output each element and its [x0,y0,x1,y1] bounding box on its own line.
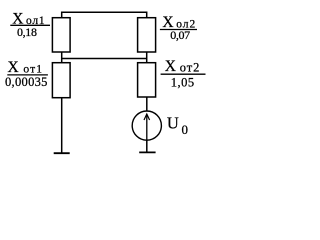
resistor Xол2 box [138,18,156,52]
svg-text:0,07: 0,07 [170,28,190,42]
svg-text:1,05: 1,05 [171,75,195,89]
label Xот1 fraction bar [7,74,48,76]
label Xол1 fraction bar [10,24,50,26]
svg-text:U: U [167,113,179,132]
resistor Xот2 box [138,63,156,97]
svg-text:от2: от2 [180,60,201,74]
svg-text:0,18: 0,18 [17,25,37,39]
wire middle rail [62,52,147,63]
label Xол2 fraction bar [160,29,197,31]
label Xот2 fraction bar [161,73,206,75]
source U0 arrow shaft [146,114,148,139]
svg-text:Х: Х [8,59,19,76]
svg-text:0: 0 [182,122,189,137]
wire right drop to source [146,97,148,111]
resistor Xот1 box [52,63,70,98]
terminal right bar [139,151,155,153]
source U0 arrow head [144,114,150,120]
svg-text:0,00035: 0,00035 [5,75,48,89]
resistor Xол1 box [52,18,70,52]
source U0 circle [132,111,161,140]
wire top rail [62,12,147,18]
wire left drop [61,98,63,153]
svg-text:Х: Х [165,58,176,75]
terminal left bar [54,152,70,154]
wire below source [146,140,148,152]
svg-text:от1: от1 [23,64,43,76]
